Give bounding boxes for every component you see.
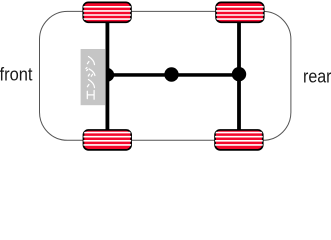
wheel rear-right (214, 130, 265, 150)
center bearing node (164, 67, 178, 81)
chassis body outline (40, 11, 291, 140)
glyph ン (87, 57, 94, 65)
glyph ジ (86, 68, 95, 77)
front axle (106, 20, 110, 132)
svg-text:front: front (0, 65, 33, 85)
rear axle (237, 20, 241, 132)
transmission node (half disc on front axle) (106, 68, 114, 82)
wheel rear-left (82, 130, 133, 150)
glyph エ (87, 91, 94, 100)
propeller shaft (107, 73, 240, 77)
glyph ン (87, 80, 94, 88)
wheel front-right (215, 2, 265, 22)
rear differential node (232, 67, 246, 81)
wheel front-left (82, 2, 133, 22)
engine label (vertical katakana) (86, 57, 95, 100)
svg-text:rear: rear (303, 67, 331, 87)
engine block (81, 49, 106, 105)
